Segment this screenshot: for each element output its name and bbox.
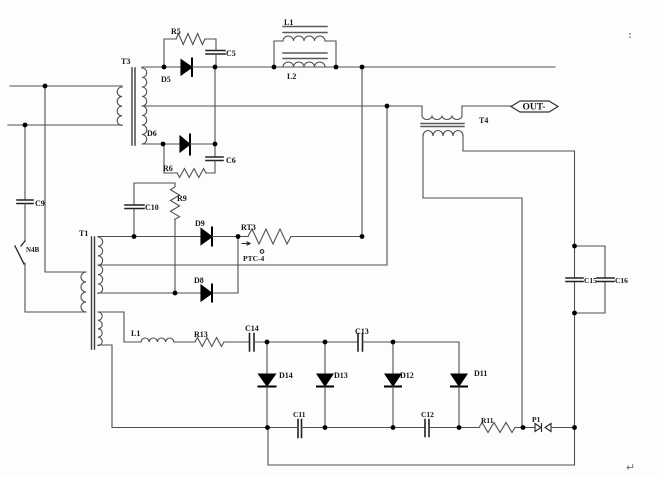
wire D8 row from T1 <box>98 292 201 294</box>
wire L-block left vertical <box>274 41 283 67</box>
svg-text:L1: L1 <box>131 329 140 338</box>
capacitor C12 <box>425 420 429 437</box>
wire top-left mains line A <box>10 85 122 87</box>
wire row B C12 to R11 <box>429 427 479 429</box>
wire C5 down to node <box>215 54 217 67</box>
wire C9 to switch <box>24 204 26 242</box>
resistor R6 <box>164 144 206 178</box>
svg-text:R9: R9 <box>177 194 187 203</box>
transformer T4 bottom winding <box>423 131 463 137</box>
svg-text:D6: D6 <box>147 129 157 138</box>
wire L-block right vertical <box>325 41 336 67</box>
transformer T1 primary winding <box>81 272 86 312</box>
PTC circle <box>260 250 264 254</box>
svg-text:C6: C6 <box>226 156 236 165</box>
svg-text:D5: D5 <box>161 75 171 84</box>
svg-text:C9: C9 <box>35 199 45 208</box>
wire T4 bottom-left terminal to x522 vertical <box>423 136 522 428</box>
resistor R11 <box>479 423 515 433</box>
svg-text:C12: C12 <box>421 410 434 419</box>
wire R11 to P1 <box>515 427 535 429</box>
svg-text:PTC-4: PTC-4 <box>243 254 264 263</box>
wire vertical D5 node to D6 node <box>214 67 216 144</box>
transformer T1 secondary upper winding <box>98 237 103 293</box>
svg-text:T1: T1 <box>79 229 88 238</box>
PTC arrow <box>242 242 264 253</box>
diode D6 <box>180 136 190 152</box>
svg-text:C16: C16 <box>615 276 628 285</box>
diode D9 <box>201 229 212 245</box>
transformer T4 core <box>421 124 464 127</box>
wire C6 to R6 <box>206 161 215 174</box>
wire vertical from rail to RT3 right end <box>361 67 363 237</box>
wire main output rail under L2 <box>274 66 555 68</box>
diode D14 <box>266 342 268 374</box>
svg-text:L1: L1 <box>284 18 293 27</box>
inductor L1 output filter <box>141 338 174 342</box>
svg-text:R5: R5 <box>171 27 181 36</box>
svg-text:D9: D9 <box>195 219 205 228</box>
capacitor C10 leads <box>134 183 175 237</box>
svg-text:R13: R13 <box>194 330 208 339</box>
wire T4 bottom-right terminal to right bus <box>463 136 575 246</box>
wire T4 feed vertical from center-tap row <box>98 106 387 265</box>
wire center tap row to T4 <box>387 105 422 107</box>
capacitor C15 <box>566 278 583 282</box>
diode D12 <box>392 342 394 374</box>
wire D6 anode <box>163 143 180 145</box>
svg-text:D14: D14 <box>279 371 293 380</box>
wire T3 center tap row <box>142 105 387 107</box>
wire RT3 node down to D8 cathode <box>212 237 238 294</box>
wire D9 cathode to RT3 <box>212 236 248 238</box>
capacitor C11 <box>298 420 302 438</box>
resistor R9 <box>171 183 180 219</box>
svg-text:N4B: N4B <box>26 246 40 254</box>
capacitor C5 <box>206 51 225 55</box>
protector P1 <box>535 424 551 432</box>
wire L1 to R13 <box>174 341 195 343</box>
wire R13 to C14 <box>224 341 250 343</box>
wire D6 cathode <box>190 143 215 145</box>
wire RT3 right <box>291 236 362 238</box>
capacitor C13 <box>358 334 363 352</box>
svg-text:OUT-: OUT- <box>523 103 546 113</box>
choke core lines <box>283 27 327 59</box>
capacitor C6 <box>206 157 223 161</box>
capacitor C10 <box>125 205 144 209</box>
wire bottom return rail <box>268 428 575 466</box>
svg-text:C14: C14 <box>245 324 259 333</box>
svg-text:P1: P1 <box>532 415 541 424</box>
svg-text:D11: D11 <box>474 369 487 378</box>
wire vertical from node A down to T1 primary top <box>45 86 86 272</box>
inductor L1 top winding <box>283 36 325 41</box>
svg-text:↵: ↵ <box>626 462 635 474</box>
svg-text:R11: R11 <box>481 416 494 425</box>
svg-text:R6: R6 <box>163 164 173 173</box>
capacitor C9 <box>17 200 33 204</box>
wire T1 lower winding top tap to L1 <box>98 312 141 342</box>
wire T3 secondary top tap <box>142 66 164 68</box>
svg-text:C13: C13 <box>355 327 369 336</box>
wire C16 parallel branch <box>575 246 606 313</box>
wire row A C13 to D11 corner <box>363 342 460 374</box>
diode D8 <box>201 285 212 301</box>
svg-text:L2: L2 <box>287 72 296 81</box>
resistor R5 <box>176 34 205 45</box>
wire R5 branch left <box>164 39 176 67</box>
wire row A C14 to C13 <box>254 341 358 343</box>
transformer T3 core <box>132 68 135 145</box>
wire D9 row from T1 <box>98 236 201 238</box>
wire D5 anode <box>164 66 181 68</box>
svg-text:C5: C5 <box>226 49 236 58</box>
wire row B left of C11 <box>112 427 298 429</box>
wire P1 to right bus <box>551 427 575 429</box>
transformer T1 core <box>92 237 95 349</box>
svg-text:C10: C10 <box>145 203 159 212</box>
svg-text:C11: C11 <box>293 410 306 419</box>
wire T4 to OUT- <box>462 105 511 107</box>
svg-text:C15: C15 <box>584 276 597 285</box>
wire row B C11 to C12 <box>302 427 426 429</box>
diode D5 <box>181 60 192 76</box>
capacitor C16 <box>597 278 614 282</box>
svg-text:D12: D12 <box>400 371 414 380</box>
wire switch down to T1 primary bottom <box>25 263 86 312</box>
wire C9 branch upper <box>24 125 26 200</box>
transformer T3 primary winding <box>117 87 122 125</box>
transformer T3 secondary winding <box>142 68 147 144</box>
svg-text:RT3: RT3 <box>241 223 256 232</box>
wire T1 lower winding bottom tap down <box>98 345 268 428</box>
wire mains line B <box>8 124 122 126</box>
wire rectified rail right of D5 <box>215 66 274 68</box>
diode D13 <box>324 342 326 374</box>
wire R5 to C5 <box>205 39 216 50</box>
diode D11 <box>451 374 467 386</box>
svg-text:D13: D13 <box>334 371 348 380</box>
capacitor C14 <box>250 334 255 352</box>
inductor L2 winding <box>283 62 325 67</box>
wire D5 cathode <box>192 66 215 68</box>
transformer T1 secondary lower winding <box>98 312 102 346</box>
svg-text:D8: D8 <box>194 276 204 285</box>
stray speck top right <box>629 33 631 35</box>
resistor R13 <box>195 338 224 347</box>
wire right bus through caps <box>574 246 576 428</box>
resistor RT3 <box>248 229 291 244</box>
wire T3 secondary bottom tap <box>142 143 163 145</box>
switch N4B <box>15 241 25 264</box>
transformer T4 top winding <box>422 106 462 120</box>
wire R9 down to D8 row <box>174 219 176 293</box>
OUT- flag <box>511 101 558 113</box>
svg-text:T4: T4 <box>479 116 488 125</box>
wire D6 node to C6 <box>214 144 216 157</box>
svg-text:T3: T3 <box>121 57 130 66</box>
